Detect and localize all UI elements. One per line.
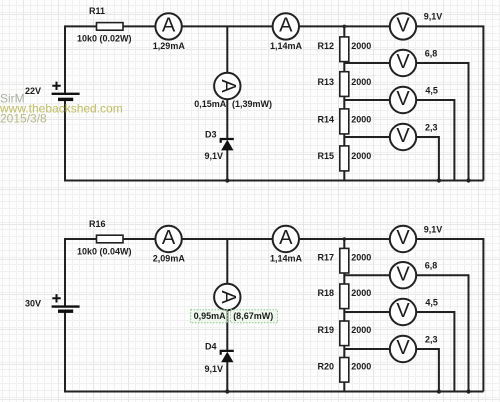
svg-text:D4: D4	[205, 342, 217, 352]
wire ladder1 spine	[343, 26, 345, 180]
svg-text:22V: 22V	[25, 86, 41, 96]
voltmeter V4	[390, 122, 438, 150]
svg-text:9,1V: 9,1V	[424, 224, 443, 234]
svg-text:9,1V: 9,1V	[205, 364, 224, 374]
svg-text:V: V	[396, 15, 410, 37]
svg-text:A: A	[162, 227, 176, 249]
wire A1 to A2	[182, 25, 272, 27]
svg-text:2015/3/8: 2015/3/8	[0, 112, 47, 126]
wire V1 to right riser down	[417, 26, 484, 180]
svg-text:(1,39mW): (1,39mW)	[232, 99, 272, 109]
svg-text:4,5: 4,5	[425, 297, 438, 307]
wire A6 to D4	[226, 310, 228, 351]
wire battery1 + to top rail to R11	[65, 26, 97, 93]
wire ladder2 spine	[343, 239, 345, 392]
svg-text:6,8: 6,8	[425, 48, 438, 58]
svg-text:9,1V: 9,1V	[424, 12, 443, 22]
svg-text:0,15mA: 0,15mA	[194, 99, 227, 109]
svg-text:R13: R13	[318, 77, 335, 87]
svg-text:R19: R19	[318, 325, 335, 335]
svg-text:2000: 2000	[351, 115, 371, 125]
resistor R12	[318, 37, 372, 62]
resistor R19	[318, 321, 372, 346]
svg-text:R17: R17	[318, 253, 335, 263]
svg-text:10k0 (0.04W): 10k0 (0.04W)	[77, 247, 132, 257]
svg-text:0,95mA: 0,95mA	[194, 311, 227, 321]
wire V8 return	[417, 349, 439, 392]
svg-text:R20: R20	[318, 362, 335, 372]
voltmeter V2	[390, 48, 438, 76]
wire D3 to bottom rail	[226, 150, 228, 181]
resistor R14	[318, 109, 372, 134]
svg-text:V: V	[396, 337, 410, 359]
wire tap node2D to V8	[344, 348, 389, 350]
svg-text:2000: 2000	[351, 325, 371, 335]
svg-text:2000: 2000	[351, 362, 371, 372]
svg-text:R11: R11	[89, 6, 105, 16]
wire node to ammeter A6 branch	[226, 239, 228, 284]
svg-text:30V: 30V	[25, 298, 41, 308]
svg-text:1,29mA: 1,29mA	[153, 41, 186, 51]
svg-text:V: V	[396, 227, 410, 249]
svg-text:2,3: 2,3	[425, 122, 438, 132]
wire tap node2C to V7	[344, 311, 389, 313]
svg-text:2,09mA: 2,09mA	[153, 254, 186, 264]
ammeter A5	[270, 226, 303, 264]
svg-text:V: V	[396, 51, 410, 73]
wire V6 return	[417, 275, 469, 391]
resistor R11	[77, 6, 132, 44]
battery B2 30V	[52, 294, 80, 311]
battery B1 22V	[52, 82, 80, 100]
svg-text:2000: 2000	[351, 151, 371, 161]
resistor R18	[318, 284, 372, 309]
wire R16 to A4	[123, 238, 155, 240]
svg-text:2000: 2000	[351, 41, 371, 51]
wire A4 to A5	[182, 238, 272, 240]
wire V4 return	[417, 137, 439, 181]
svg-text:V: V	[396, 263, 410, 285]
resistor R15	[318, 146, 372, 171]
svg-text:A: A	[217, 290, 239, 304]
wire tap node2B to V6	[344, 274, 389, 276]
voltmeter V6	[390, 261, 438, 289]
svg-text:1,14mA: 1,14mA	[270, 254, 303, 264]
svg-text:2000: 2000	[351, 77, 371, 87]
zener diode D4 9.1V	[205, 342, 234, 375]
wire V2 return	[417, 63, 469, 181]
node junction dots circuit1	[225, 25, 471, 183]
resistor R20	[318, 358, 372, 383]
svg-text:4,5: 4,5	[425, 85, 438, 95]
wire battery2 - to bottom rail	[65, 311, 483, 391]
svg-text:D3: D3	[205, 129, 217, 139]
svg-text:2000: 2000	[351, 253, 371, 263]
ammeter A4	[153, 226, 186, 264]
wire battery2 + to top rail to R16	[65, 239, 97, 307]
svg-text:V: V	[396, 300, 410, 322]
svg-text:2,3: 2,3	[425, 334, 438, 344]
wire D4 to bottom rail	[226, 362, 228, 392]
svg-text:V: V	[396, 125, 410, 147]
wire tap node1D to V4	[344, 136, 389, 138]
svg-text:R14: R14	[318, 115, 335, 125]
svg-text:R15: R15	[318, 151, 335, 161]
ammeter A6 vertical selected	[191, 284, 278, 323]
wire R11 to A1	[123, 25, 155, 27]
voltmeter V7	[390, 297, 438, 325]
voltmeter V5	[390, 224, 443, 252]
wire A2 to node ladder1 to V1	[300, 25, 390, 27]
voltmeter V3	[390, 85, 438, 113]
svg-text:9,1V: 9,1V	[205, 151, 224, 161]
resistor R13	[318, 72, 372, 97]
ammeter A2	[270, 13, 303, 51]
wire V3 return	[417, 100, 455, 181]
svg-text:A: A	[279, 227, 293, 249]
wire battery1 - to bottom rail	[65, 99, 483, 180]
svg-text:1,14mA: 1,14mA	[270, 41, 303, 51]
resistor R17	[318, 248, 372, 273]
wire tap node1C to V3	[344, 99, 389, 101]
wire tap node1B to V2	[344, 62, 389, 64]
svg-text:2000: 2000	[351, 288, 371, 298]
wire V5 to right riser down	[417, 239, 484, 392]
svg-text:(8,67mW): (8,67mW)	[233, 311, 273, 321]
wire V7 return	[417, 312, 455, 392]
svg-text:6,8: 6,8	[425, 261, 438, 271]
voltmeter V1	[390, 12, 443, 40]
svg-text:A: A	[279, 15, 293, 37]
wire A5 to node ladder2 to V5	[300, 238, 390, 240]
svg-text:A: A	[162, 15, 176, 37]
voltmeter V8	[390, 334, 438, 362]
wire A3 to D3	[226, 100, 228, 140]
zener diode D3 9.1V	[205, 129, 234, 161]
svg-text:R12: R12	[318, 41, 335, 51]
svg-text:A: A	[217, 79, 239, 93]
svg-text:V: V	[396, 88, 410, 110]
node junction dots circuit2	[225, 237, 471, 393]
svg-text:10k0 (0.02W): 10k0 (0.02W)	[77, 34, 132, 44]
svg-text:R18: R18	[318, 288, 335, 298]
svg-text:R16: R16	[89, 219, 106, 229]
resistor R16	[77, 219, 132, 257]
ammeter A3 vertical	[194, 73, 272, 109]
wire node to ammeter A3 branch	[226, 26, 228, 72]
ammeter A1	[153, 13, 186, 51]
